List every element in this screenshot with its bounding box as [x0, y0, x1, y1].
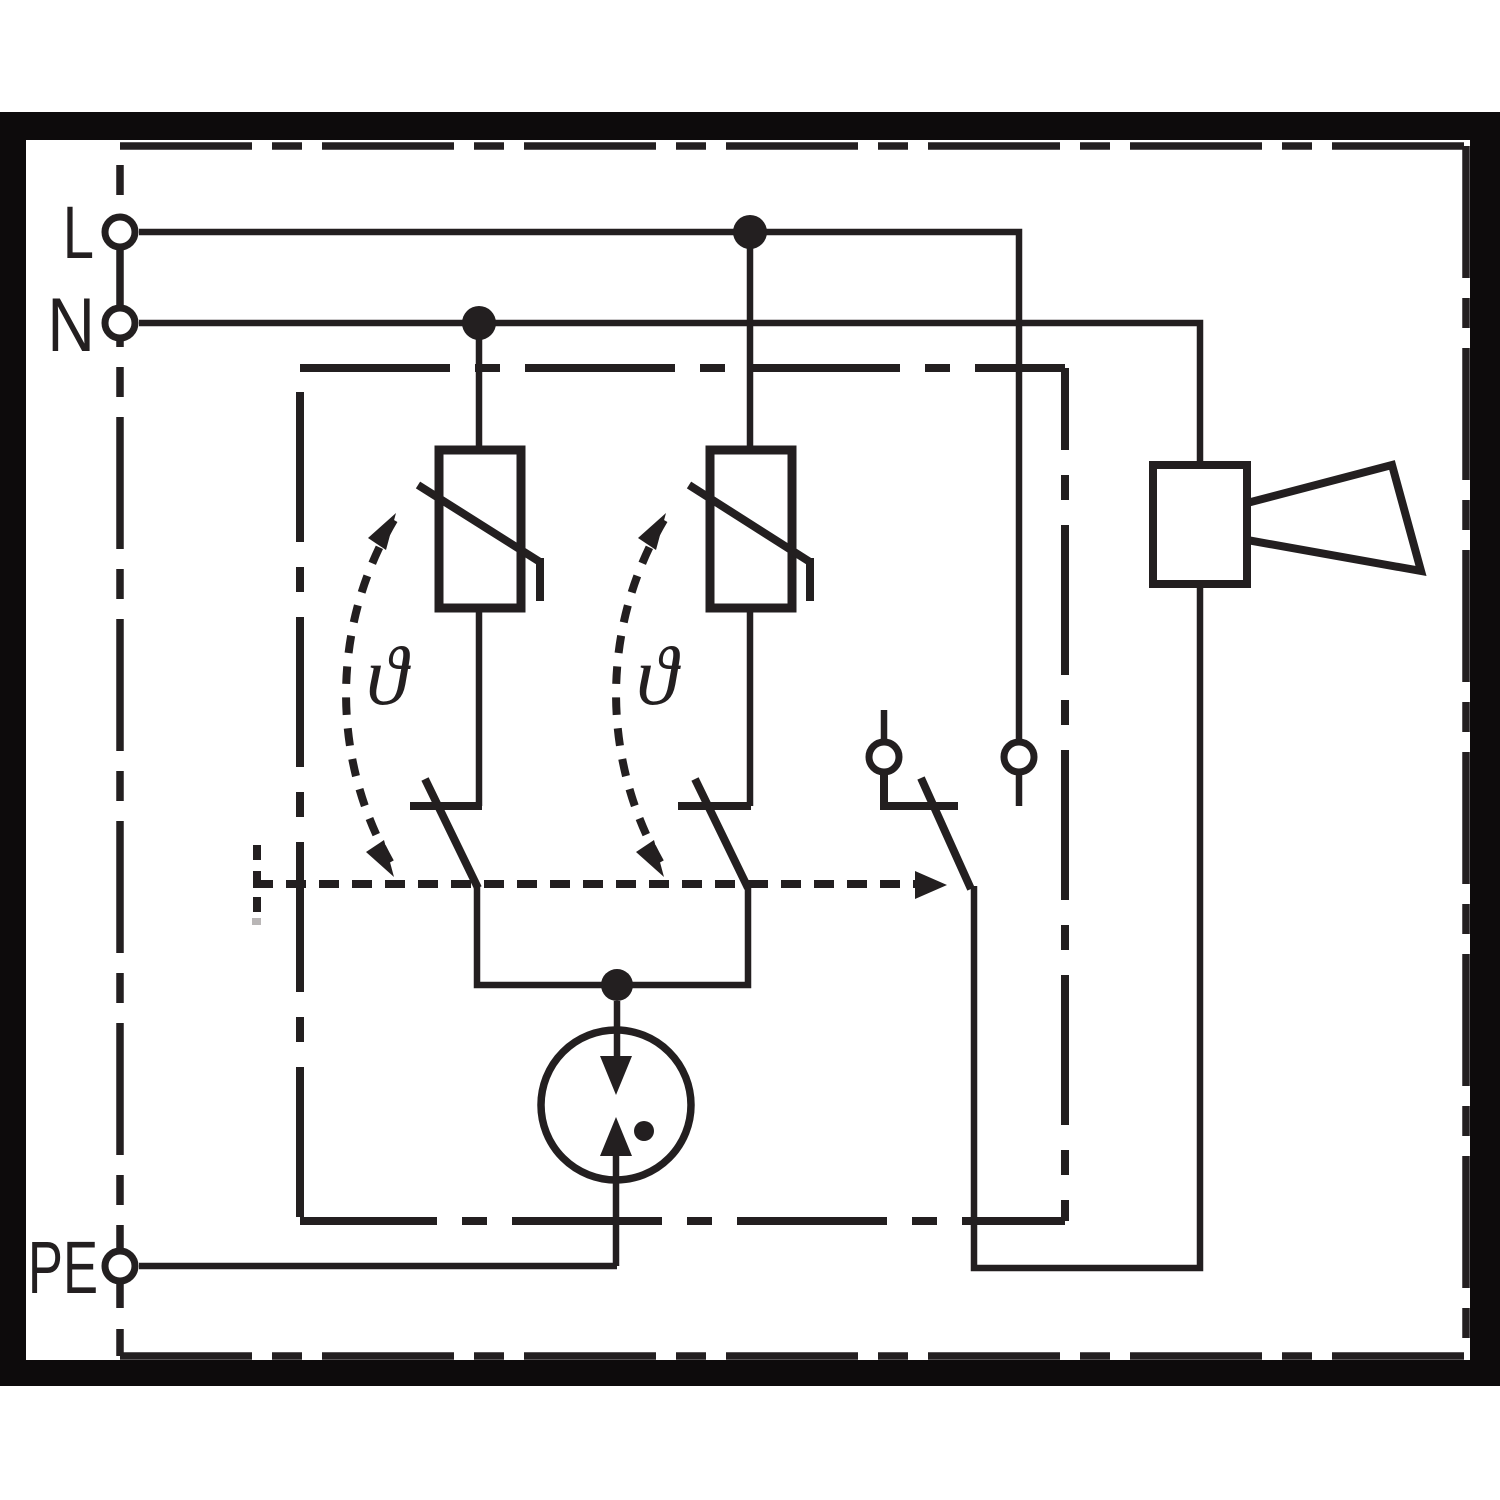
terminal N: [105, 308, 135, 338]
trigger linkage faint mark: [252, 918, 261, 925]
wire: MOV1 to disconnect switch: [476, 608, 483, 806]
svg-text:ϑ: ϑ: [366, 630, 411, 723]
changeover contact: fixed contact B: [1004, 742, 1034, 806]
thermal arc arrow 2: [616, 520, 664, 867]
wire: blade to signal bus: [974, 584, 1200, 1268]
gas discharge tube (N-PE spark gap): [541, 1001, 691, 1266]
wire: L-N link dash segment: [117, 248, 124, 308]
wire: PE bus: [139, 1263, 617, 1270]
varistor MOV1: [418, 450, 540, 608]
terminal L: [105, 217, 135, 247]
trigger arrowhead: [915, 871, 947, 899]
changeover contact blade: [921, 778, 971, 889]
terminal PE: [105, 1251, 135, 1281]
protection module boundary (inner dash-dot): [300, 368, 1065, 1221]
varistor MOV2: [689, 450, 810, 608]
svg-text:ϑ: ϑ: [636, 630, 681, 723]
wire: L bus: [139, 232, 1019, 739]
svg-text:PE: PE: [28, 1226, 98, 1309]
node: junction on N bus: [462, 306, 496, 340]
wire: MOV2 feed from L: [747, 232, 754, 450]
svg-text:N: N: [47, 284, 95, 368]
horn bell: [1247, 465, 1421, 571]
node: junction on L bus: [733, 215, 767, 249]
thermal arc arrow 1: [346, 520, 394, 867]
changeover contact: fixed contact A: [869, 710, 958, 806]
wire: PE stub below terminal: [117, 1285, 124, 1306]
wire: MOV2 to disconnect switch: [747, 608, 754, 806]
node: common junction above GDT: [601, 969, 633, 1001]
wire: N bus: [139, 323, 1200, 465]
wire: switch F2 to common node: [617, 885, 748, 985]
thermal disconnect switch F2: [678, 779, 751, 888]
trigger linkage (dashed): [253, 845, 916, 915]
svg-text:L: L: [63, 192, 94, 274]
wire: MOV1 feed from N: [476, 323, 483, 450]
thermal disconnect switch F1: [410, 779, 482, 888]
enclosure boundary (outer dash-dot): [120, 146, 1466, 1356]
wire: switch F1 to common node: [477, 885, 617, 985]
horn box: [1153, 465, 1247, 584]
